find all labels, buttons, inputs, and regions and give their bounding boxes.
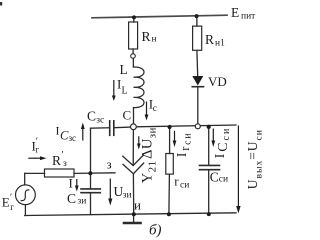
svg-text:С: С <box>210 169 219 184</box>
svg-text:L: L <box>122 86 128 97</box>
svg-text:зи: зи <box>78 197 87 207</box>
svg-text:C: C <box>123 108 132 123</box>
svg-text:VD: VD <box>208 74 227 89</box>
svg-text:Е: Е <box>2 195 10 210</box>
svg-text:R: R <box>52 153 61 168</box>
svg-text:I: I <box>56 124 60 138</box>
svg-text:L: L <box>120 62 128 77</box>
svg-text:и: и <box>134 197 141 212</box>
svg-text:н: н <box>152 35 157 45</box>
svg-text:з: з <box>107 156 112 171</box>
svg-text:I: I <box>69 175 73 190</box>
svg-text:б): б) <box>149 223 162 239</box>
svg-text:зи: зи <box>123 191 132 201</box>
svg-text:С: С <box>67 191 76 206</box>
svg-text:IСси: IСси <box>212 127 232 159</box>
svg-text:R: R <box>205 32 214 47</box>
svg-text:Uвых=Uси: Uвых=Uси <box>245 129 265 189</box>
svg-text:r: r <box>174 174 179 189</box>
svg-text:С: С <box>87 108 96 123</box>
svg-text:си: си <box>180 181 189 191</box>
svg-text:з: з <box>63 159 67 169</box>
svg-text:Irси: Irси <box>174 131 194 157</box>
svg-text:г: г <box>36 145 40 155</box>
svg-text:зс: зс <box>96 115 104 125</box>
svg-text:зс: зс <box>69 133 77 143</box>
svg-text:пит: пит <box>241 12 256 22</box>
svg-text:си: си <box>219 175 228 185</box>
svg-text:с: с <box>153 104 157 114</box>
svg-text:R: R <box>142 29 151 44</box>
svg-text:г: г <box>10 202 14 212</box>
svg-text:Y21 ΔUзи: Y21 ΔUзи <box>140 127 159 183</box>
svg-text:н1: н1 <box>215 39 225 49</box>
svg-text:Е: Е <box>231 5 239 20</box>
